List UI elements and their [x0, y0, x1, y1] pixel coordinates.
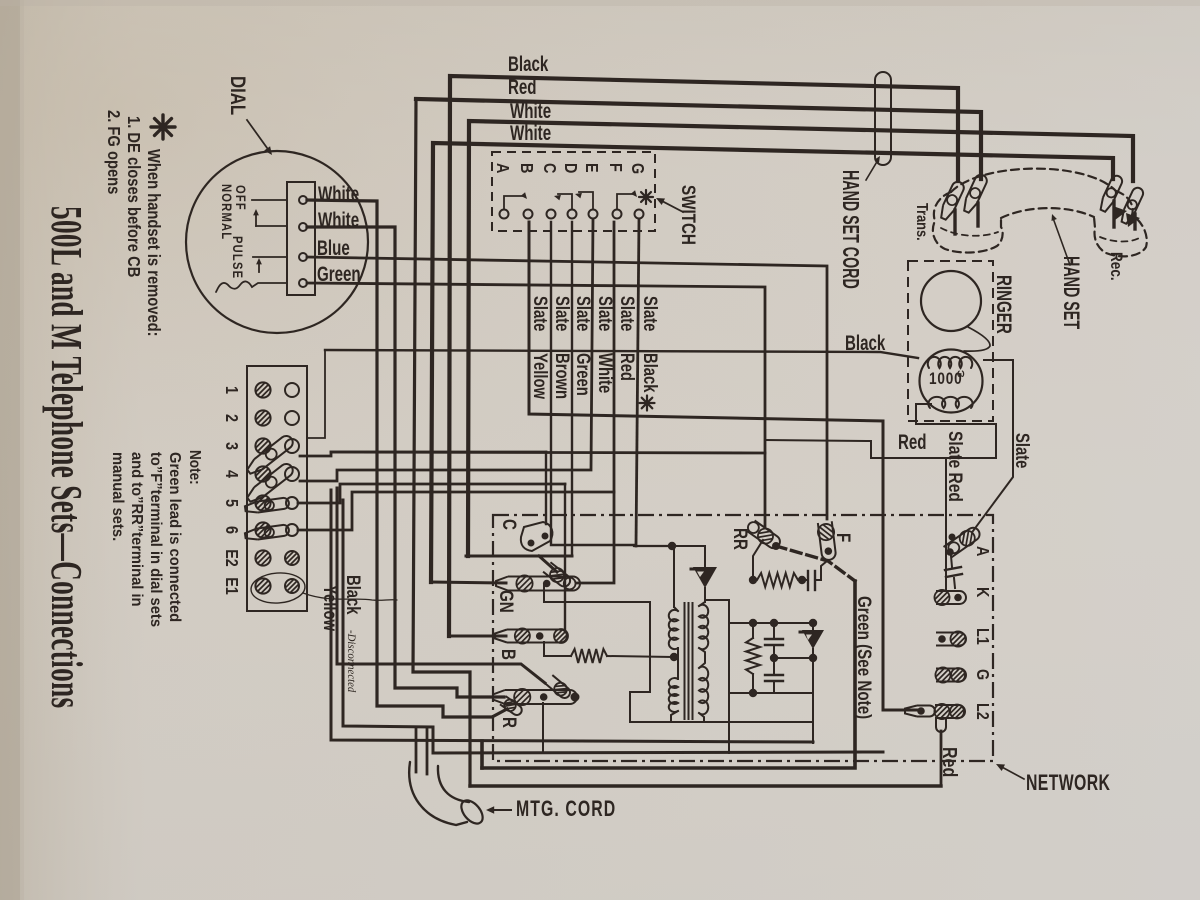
- terminal L2 label: [973, 703, 993, 720]
- cord wire drop 2: [426, 727, 429, 774]
- terminal A lug: [943, 524, 983, 558]
- black handset cord wire: [449, 76, 958, 636]
- svg-text:Red: Red: [898, 429, 927, 453]
- ringer coil upper winding: [928, 357, 973, 368]
- svg-text:G: G: [628, 163, 648, 174]
- dial wire label Green: [317, 261, 361, 285]
- wire B switch run: [529, 222, 883, 421]
- footnote: When handset is removed: [104, 110, 164, 337]
- terminal 6 lug: [244, 524, 289, 541]
- wire C switch to junction: [551, 222, 634, 545]
- svg-text:Slate: Slate: [552, 296, 573, 331]
- switch contact F-G: [617, 190, 637, 209]
- varistor V2: [800, 623, 824, 658]
- ringer coil lower winding: [928, 397, 972, 408]
- svg-text:L2: L2: [973, 703, 993, 720]
- terminal A label: [973, 546, 993, 557]
- svg-text:-Disconnected: -Disconnected: [345, 630, 358, 693]
- terminal strip screws column: [255, 382, 270, 593]
- mounting cord outer sheath: [409, 762, 469, 825]
- hand set leader arrow: [1052, 214, 1071, 265]
- switch terminal labels: [493, 163, 648, 174]
- ringer lower lead: [916, 404, 996, 458]
- svg-text:2: 2: [222, 414, 242, 422]
- dial terminal 1: [299, 196, 307, 204]
- terminal GN upper lug: [542, 562, 573, 590]
- svg-text:C: C: [540, 163, 560, 174]
- note text bottom-left: [109, 450, 203, 627]
- network leader arrow: [996, 764, 1024, 779]
- ringer black lead label: [845, 330, 886, 354]
- svg-text:Slate: Slate: [573, 296, 594, 331]
- network dash-dot box: [493, 515, 993, 761]
- dial OFF NORMAL label: [219, 184, 248, 279]
- red handset cord wire: [416, 99, 981, 179]
- cluster capacitor 2: [765, 658, 783, 693]
- wire GN to switch F riser: [577, 222, 614, 583]
- svg-text:Black: Black: [508, 51, 549, 75]
- svg-text:3: 3: [222, 442, 242, 450]
- switch terminal circles: [500, 210, 644, 219]
- terminal F label: [833, 533, 855, 542]
- terminal 4 lug: [245, 461, 296, 504]
- wire blue dial to F: [307, 257, 827, 519]
- dial contact block: [287, 182, 315, 295]
- SWITCH label: [678, 185, 700, 245]
- ringer right lead wire (Slate): [973, 360, 1013, 531]
- Green (See Note) label: [854, 596, 876, 719]
- transformer left bottom lead: [671, 711, 678, 722]
- NETWORK label: [1026, 772, 1110, 796]
- dial wire label White 1: [318, 181, 359, 205]
- svg-text:HAND SET: HAND SET: [1059, 256, 1084, 330]
- wire red dial drop: [413, 99, 470, 786]
- receiver lug left: [1098, 174, 1124, 213]
- terminal R label: [499, 717, 521, 728]
- dashed strap RR to F to Green: [776, 546, 855, 581]
- svg-text:GN: GN: [496, 590, 518, 613]
- green lead riser: [482, 581, 855, 768]
- terminal RR label: [730, 528, 752, 550]
- wire junction down to winding: [673, 548, 675, 607]
- cluster drop to bottom rail: [812, 658, 814, 743]
- G wire asterisk: [640, 396, 655, 411]
- bottom line to L2 red: [470, 784, 941, 787]
- wire to R diag: [337, 488, 545, 683]
- svg-text:2. FG opens: 2. FG opens: [104, 110, 124, 194]
- terminal strip body: [247, 366, 307, 611]
- svg-text:MTG. CORD: MTG. CORD: [516, 798, 616, 822]
- cluster rail bottom: [729, 689, 813, 697]
- slate wire labels: [530, 296, 661, 400]
- wire label White (top1): [510, 98, 551, 122]
- transformer right winding lower: [699, 667, 708, 715]
- svg-text:Slate: Slate: [595, 296, 616, 331]
- dial terminal 3: [299, 253, 307, 261]
- svg-text:E1: E1: [222, 577, 242, 595]
- wire white1 to GN diag: [466, 556, 572, 572]
- ringer gong: [921, 271, 981, 331]
- svg-text:E2: E2: [222, 549, 242, 567]
- receiver lead right: [1133, 214, 1136, 229]
- svg-text:Slate: Slate: [530, 296, 551, 331]
- handset outline handle top: [951, 169, 1116, 192]
- Slate Red label: [945, 431, 967, 502]
- wire dialwhite2 to R tip: [307, 227, 504, 697]
- junction dot main: [668, 542, 676, 550]
- E1 strapped loop: [250, 571, 306, 605]
- ringer dashed box: [908, 261, 993, 421]
- terminal R lug: [493, 689, 580, 705]
- handset cup inner dash right: [1100, 237, 1141, 242]
- bottom rail corner: [812, 722, 814, 743]
- HAND SET CORD label: [837, 170, 862, 289]
- wire GN dot chain: [544, 584, 650, 722]
- switch contact D-E: [575, 192, 593, 209]
- terminal C lug: [521, 522, 553, 551]
- terminal L2 wire lug: [905, 706, 935, 717]
- Black disconnected label: [343, 575, 364, 693]
- transformer left top lead: [674, 548, 678, 611]
- terminal 1 inner post: [285, 383, 299, 397]
- Yellow label: [320, 585, 341, 632]
- dial pulse spring wire: [252, 283, 287, 287]
- resistor RR-F node dots: [749, 576, 806, 584]
- svg-text:Green lead is connected: Green lead is connected: [166, 452, 183, 622]
- resistor RR-F: [757, 573, 798, 587]
- svg-text:1. DE closes before CB: 1. DE closes before CB: [124, 116, 144, 277]
- svg-text:1: 1: [222, 386, 242, 394]
- wire E switch to row4: [300, 219, 593, 481]
- dial off-normal contact wire: [252, 199, 287, 201]
- svg-text:5: 5: [222, 499, 242, 507]
- wire row6 to F riser: [298, 492, 614, 530]
- red lead wire: [871, 457, 996, 459]
- Slate label (ringer to A): [1012, 433, 1033, 468]
- handset outline receiver cup: [1094, 191, 1147, 256]
- red lead riser: [765, 440, 871, 458]
- svg-text:K: K: [973, 587, 993, 598]
- terminal 6 inner post: [286, 524, 298, 536]
- wire B dot to resistor: [544, 642, 571, 656]
- Rec. label: [1107, 252, 1126, 281]
- wire black to B tip: [449, 635, 506, 638]
- wire label White (top2): [510, 120, 551, 144]
- transmitter lead right: [976, 203, 979, 226]
- svg-text:Slate: Slate: [640, 296, 661, 331]
- svg-text:manual sets.: manual sets.: [109, 452, 126, 541]
- green lead bottom run: [480, 741, 484, 768]
- svg-text:4: 4: [222, 470, 242, 478]
- footnote asterisk symbol: [151, 115, 175, 139]
- switch leader arrow: [656, 198, 683, 212]
- wire C drop: [545, 452, 547, 524]
- white handset cord wire 1: [468, 121, 1133, 556]
- svg-text:A: A: [973, 546, 993, 557]
- transmitter lug left: [938, 180, 966, 221]
- handset outline transmitter cup: [933, 192, 1003, 253]
- transformer core: [685, 603, 693, 719]
- svg-text:PULSE: PULSE: [230, 236, 245, 279]
- dial label: [225, 76, 248, 116]
- terminal E2 inner screw: [285, 551, 299, 565]
- wire junction to varistor: [672, 546, 705, 567]
- receiver lead left: [1112, 201, 1115, 227]
- dial terminal 2: [299, 223, 307, 231]
- wire label Black (top): [508, 51, 549, 75]
- resistor B (network): [571, 649, 607, 663]
- receiver element triangles: [1113, 206, 1140, 227]
- terminal 3 inner post: [285, 439, 299, 453]
- HAND SET label: [1059, 256, 1084, 330]
- handset cup inner dash left: [941, 228, 998, 236]
- capacitor F hook: [821, 561, 827, 580]
- cluster rail top: [729, 619, 817, 627]
- dial pulse contact wire: [253, 256, 287, 258]
- terminal G label: [973, 669, 993, 680]
- wire resistor B to transformer tap: [607, 656, 672, 657]
- slate red wire to K: [945, 458, 947, 590]
- wire G switch drop: [636, 219, 639, 546]
- svg-text:NORMAL: NORMAL: [219, 184, 234, 240]
- terminal G lug: [935, 667, 966, 682]
- hand set cord leader: [866, 156, 880, 180]
- svg-text:Slate Red: Slate Red: [945, 431, 967, 502]
- svg-text:E: E: [582, 163, 602, 173]
- title: 500L and M Telephone Sets—Connections: [42, 206, 91, 708]
- terminal 5 inner post: [286, 497, 298, 509]
- dial off-normal contact arrow: [253, 209, 287, 226]
- svg-text:SWITCH: SWITCH: [678, 185, 700, 245]
- mtg cord leader arrow: [486, 806, 511, 813]
- transformer tap dot: [670, 653, 678, 661]
- cluster left vertical: [705, 600, 729, 753]
- cluster resistor: [746, 623, 760, 693]
- wire white2 to GN tip: [431, 582, 506, 583]
- svg-text:F: F: [833, 533, 855, 542]
- svg-text:RINGER: RINGER: [992, 275, 1016, 334]
- terminal L2 bottom lug: [936, 718, 946, 732]
- svg-text:Red: Red: [617, 353, 638, 381]
- dial wire label White 2: [318, 207, 359, 231]
- cluster capacitor 1: [765, 623, 783, 658]
- wire dialwhite1 to R lower lug: [307, 200, 507, 717]
- varistor V1: [691, 567, 717, 588]
- wire row3 to C: [300, 452, 765, 456]
- wire black cord run: [343, 500, 883, 753]
- svg-text:Trans.: Trans.: [913, 203, 931, 241]
- dial leader arrow: [247, 120, 272, 155]
- handset outline handle inner: [1001, 208, 1094, 218]
- dial pulse contact arrow: [256, 258, 262, 272]
- svg-text:500L and M Telephone Sets—: 500L and M Telephone Sets—Connections: [42, 206, 91, 708]
- wire junction to dot link: [634, 545, 672, 547]
- terminal 5 lug: [244, 497, 289, 514]
- cluster mid dot: [770, 654, 817, 662]
- svg-text:B: B: [498, 649, 520, 660]
- terminal GN label: [496, 590, 518, 613]
- terminal E1 inner screw: [285, 579, 299, 593]
- svg-text:to”F”terminal in dial sets: to”F”terminal in dial sets: [147, 452, 164, 627]
- wire label Red (top): [508, 74, 537, 98]
- switch contact A-B: [504, 192, 527, 209]
- svg-text:Brown: Brown: [552, 353, 573, 399]
- svg-text:B: B: [517, 163, 537, 174]
- wire D switch drop: [571, 222, 573, 556]
- transformer right top lead: [699, 590, 705, 606]
- ringer clapper link: [964, 327, 990, 351]
- wire RR to resistor node: [753, 540, 763, 580]
- terminal RR lug: [745, 518, 783, 551]
- switch dashed box: [492, 152, 655, 231]
- terminal 4 inner post: [285, 467, 299, 481]
- wire row5 to B-screw: [298, 484, 565, 503]
- svg-text:Black: Black: [343, 575, 364, 615]
- svg-text:D: D: [561, 163, 581, 174]
- svg-text:Slate: Slate: [1012, 433, 1033, 468]
- terminal R lower lug: [499, 696, 524, 718]
- wire L2 to Red drop: [940, 731, 943, 786]
- wire varistor to winding top: [704, 588, 706, 602]
- dial circle: [186, 151, 368, 333]
- svg-text:When handset is removed:: When handset is removed:: [144, 149, 164, 337]
- ringer black lead wire: [308, 350, 918, 438]
- wire to L2 via 883: [883, 421, 917, 710]
- RINGER label: [992, 275, 1016, 334]
- wire yellow disconnected: [331, 490, 813, 742]
- transformer right winding upper: [699, 605, 708, 650]
- dial terminal 4: [299, 279, 307, 287]
- receiver lug right: [1119, 186, 1145, 225]
- mounting cord end: [457, 797, 487, 828]
- switch contact C-D: [554, 194, 572, 209]
- ringer coil 1000 ohm label: [929, 367, 965, 389]
- terminal C label: [499, 519, 521, 530]
- terminal L1 label: [973, 628, 993, 645]
- ringer red lead label: [898, 429, 927, 453]
- svg-text:R: R: [499, 717, 521, 728]
- svg-text:ω: ω: [957, 367, 965, 381]
- switch contact asterisk: [639, 190, 653, 204]
- svg-text:Green (See Note): Green (See Note): [854, 596, 876, 719]
- transmitter lead left: [953, 210, 956, 234]
- svg-text:DIAL: DIAL: [225, 76, 248, 116]
- wire B right screw drop: [564, 484, 566, 630]
- svg-text:and to”RR”terminal in: and to”RR”terminal in: [128, 452, 145, 607]
- svg-text:HAND SET CORD: HAND SET CORD: [837, 170, 862, 289]
- dial pulse spring squiggle: [216, 281, 252, 292]
- terminal F lug: [817, 521, 838, 561]
- terminal strip numbers: [222, 386, 242, 595]
- terminal L1 lug: [936, 631, 966, 646]
- svg-text:Red: Red: [939, 747, 961, 777]
- svg-text:C: C: [499, 519, 521, 530]
- capacitor F plates: [802, 571, 821, 590]
- wire R dot drop: [542, 703, 544, 753]
- terminal R upper lug: [545, 674, 573, 700]
- svg-text:G: G: [973, 669, 993, 680]
- svg-text:NETWORK: NETWORK: [1026, 772, 1110, 796]
- dial wire label Blue: [317, 235, 350, 259]
- transformer right link lead: [699, 648, 705, 668]
- Red cord label: [939, 747, 961, 777]
- terminal L2 lug: [934, 704, 965, 719]
- terminal K lug: [934, 590, 966, 605]
- ringer coil circle: [920, 350, 983, 413]
- svg-text:Yellow: Yellow: [530, 353, 551, 400]
- terminal B label: [498, 649, 520, 660]
- terminal 3 lug: [245, 433, 296, 476]
- svg-text:L1: L1: [973, 628, 993, 645]
- E1 loop tail wire: [303, 593, 397, 600]
- terminal 2 inner post: [285, 411, 299, 425]
- svg-text:Black: Black: [640, 353, 661, 393]
- Trans. label: [913, 203, 931, 241]
- terminal B lug: [495, 628, 568, 643]
- MTG. CORD label: [516, 798, 616, 822]
- svg-text:F: F: [606, 163, 626, 172]
- wire green dial to RR: [307, 283, 765, 528]
- handset cord grommet: [875, 72, 891, 165]
- svg-text:Slate: Slate: [617, 296, 638, 331]
- svg-text:A: A: [493, 163, 513, 174]
- transformer right bottom lead: [699, 713, 704, 722]
- capacitor A-K: [945, 556, 962, 588]
- terminal K label: [973, 587, 993, 598]
- transformer left winding lower: [669, 678, 678, 712]
- transformer left winding upper: [669, 610, 678, 649]
- transmitter lug right: [961, 173, 989, 214]
- white handset cord wire 2: [431, 143, 1113, 582]
- cord wire drop 1: [415, 727, 418, 772]
- transformer bottom rail: [630, 721, 813, 723]
- svg-text:Note:: Note:: [186, 450, 203, 485]
- svg-text:White: White: [595, 353, 616, 393]
- svg-text:Yellow: Yellow: [320, 585, 341, 632]
- transformer left tap link: [677, 648, 679, 679]
- terminal GN lug: [496, 575, 580, 591]
- svg-text:6: 6: [222, 526, 242, 534]
